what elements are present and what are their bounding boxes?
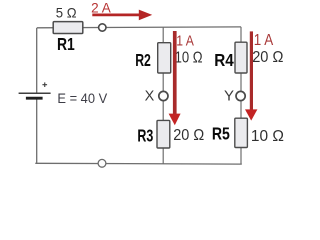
- svg-text:10 Ω: 10 Ω: [251, 128, 284, 145]
- battery + polarity mark: [42, 82, 47, 87]
- svg-text:10 Ω: 10 Ω: [175, 50, 203, 67]
- svg-text:5 Ω: 5 Ω: [56, 5, 77, 21]
- battery E plates: [19, 93, 51, 98]
- svg-text:Y: Y: [224, 88, 234, 105]
- resistor R5: [235, 118, 248, 147]
- resistor R4: [235, 42, 247, 73]
- svg-text:E = 40 V: E = 40 V: [57, 91, 107, 106]
- svg-text:20 Ω: 20 Ω: [173, 127, 204, 144]
- wire branch Y (R4-R5 vertical): [240, 27, 242, 164]
- resistor R2: [158, 43, 171, 73]
- node Y circle: [236, 91, 245, 100]
- svg-text:R1: R1: [57, 34, 75, 54]
- svg-text:R3: R3: [137, 126, 153, 146]
- current arrow 1 A (left branch, down): [169, 31, 181, 125]
- node on bottom wire (junction circle): [98, 159, 106, 167]
- svg-text:R5: R5: [212, 124, 230, 144]
- current arrow 1 A (right branch, down): [245, 31, 257, 120]
- resistor R3: [157, 120, 170, 148]
- current arrow 2 A (top horizontal): [92, 10, 152, 21]
- svg-text:1 A: 1 A: [176, 33, 194, 50]
- wire left: [36, 28, 38, 163]
- svg-text:R4: R4: [214, 50, 234, 70]
- wire top: [37, 26, 241, 29]
- wire branch X (R2-R3 vertical): [162, 27, 164, 163]
- resistor R1: [53, 22, 83, 34]
- node X circle: [159, 91, 168, 100]
- svg-text:1 A: 1 A: [254, 32, 274, 49]
- svg-text:20 Ω: 20 Ω: [252, 49, 283, 66]
- node on top wire (junction circle): [99, 24, 106, 31]
- svg-text:R2: R2: [135, 50, 151, 70]
- svg-text:X: X: [145, 89, 155, 105]
- svg-text:2 A: 2 A: [91, 0, 111, 15]
- wire bottom: [35, 162, 242, 165]
